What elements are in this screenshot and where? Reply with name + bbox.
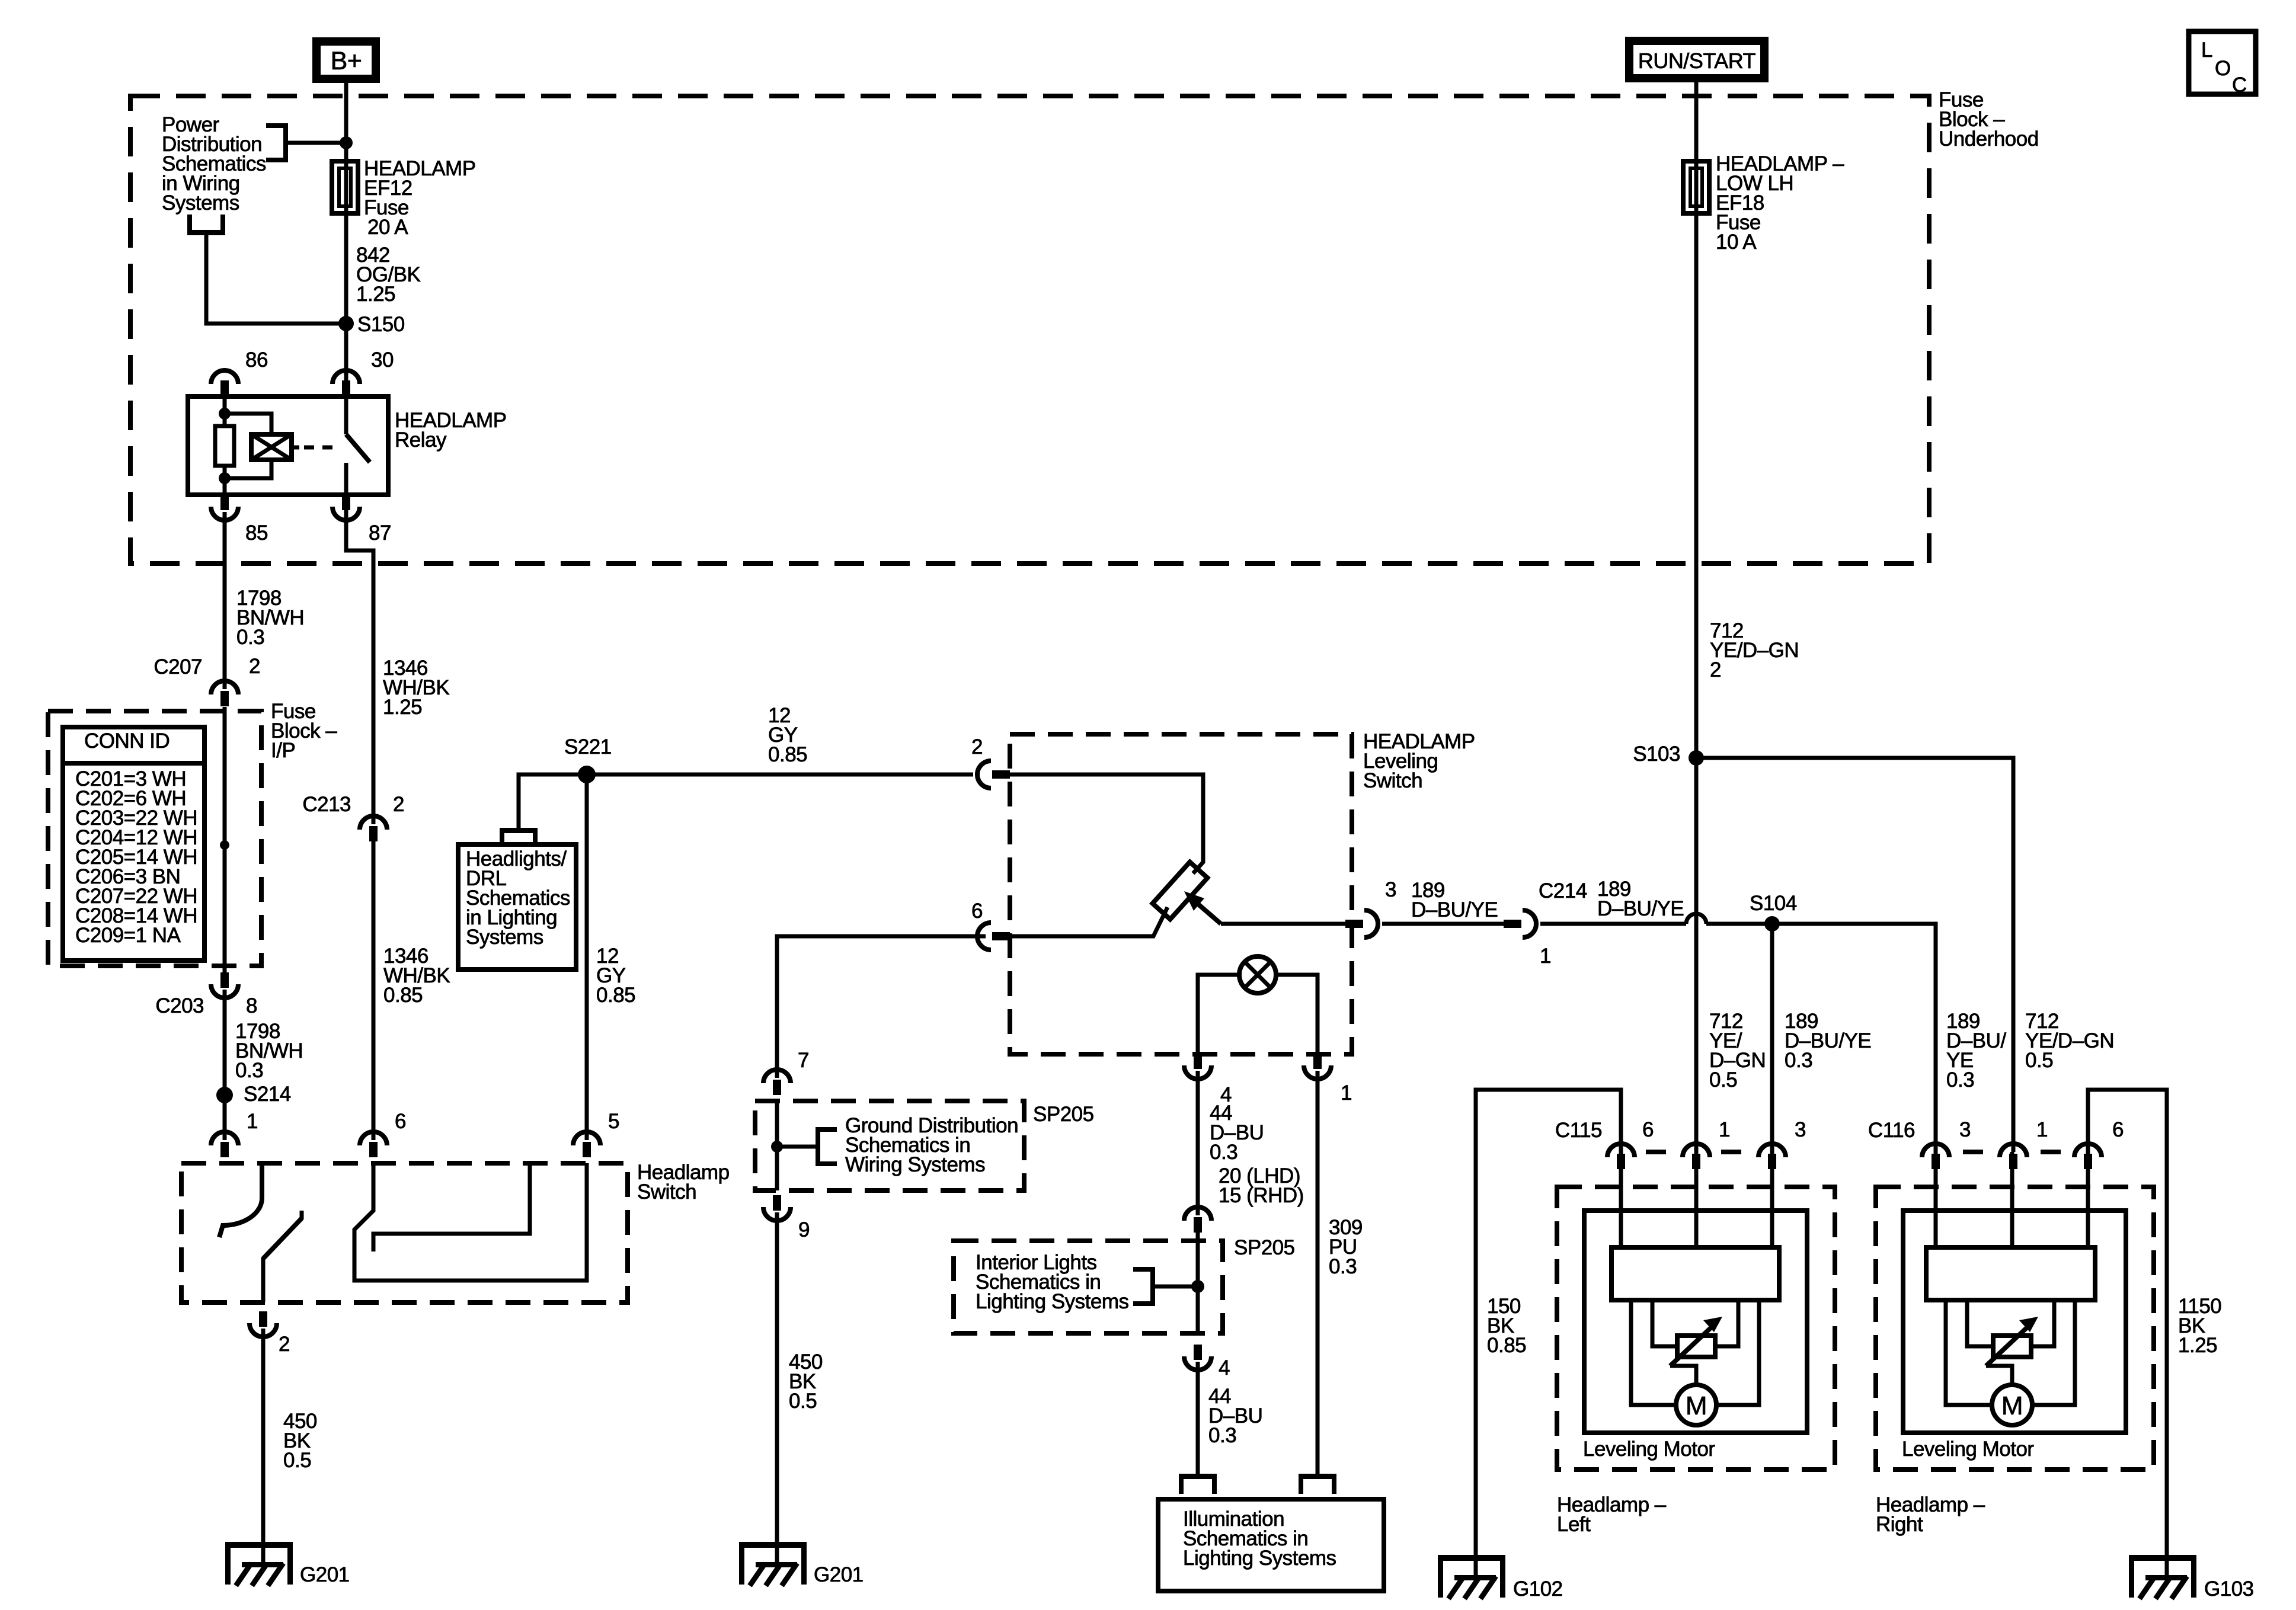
potentiometer arrow — [1670, 1323, 1716, 1366]
connector C213 pin 2 — [360, 816, 387, 830]
svg-text:YE/D–GN: YE/D–GN — [1710, 639, 1799, 662]
svg-text:0.3: 0.3 — [1329, 1255, 1357, 1278]
wire pin 1 down, 309 PU — [1316, 1071, 1320, 1474]
motor assembly terminal block — [1611, 1247, 1779, 1300]
svg-text:B+: B+ — [331, 47, 362, 75]
svg-text:20 A: 20 A — [367, 216, 408, 239]
svg-text:Systems: Systems — [466, 926, 543, 949]
svg-text:15 (RHD): 15 (RHD) — [1219, 1184, 1304, 1207]
wire pin 2 to ground G201, 450 BK — [261, 1329, 266, 1548]
HEADLAMP Relay box — [188, 396, 388, 495]
svg-text:1.25: 1.25 — [2178, 1334, 2217, 1357]
leveling feedback potentiometer — [1677, 1336, 1715, 1357]
wire S104 branch right to C116 pin 3 — [1772, 924, 1936, 1152]
svg-text:S221: S221 — [564, 735, 612, 758]
wire through Fuse Block I/P — [223, 707, 227, 975]
svg-text:Switch: Switch — [1363, 769, 1422, 792]
svg-text:Underhood: Underhood — [1939, 127, 2039, 151]
Fuse Block - I/P dashed box — [48, 711, 261, 966]
pin wires into motor assembly — [1619, 1152, 1623, 1247]
svg-text:S150: S150 — [357, 313, 405, 336]
wire pin 9 to ground G201 middle, 450 BK — [775, 1212, 779, 1548]
svg-text:86: 86 — [245, 348, 268, 372]
leveling potentiometer — [1153, 862, 1208, 920]
wire pin 4 down, 44 D-BU — [1196, 1071, 1200, 1215]
Fuse Block - Underhood dashed box — [130, 96, 1929, 564]
relay internal junction top — [219, 408, 231, 420]
wire S104 down to C115 pin 3 — [1770, 924, 1774, 1152]
pin wires into motor assembly — [1934, 1152, 1938, 1247]
CONN ID table box — [63, 727, 204, 961]
HEADLAMP Leveling Switch dashed box — [1010, 734, 1352, 1054]
svg-text:5: 5 — [608, 1110, 619, 1133]
Headlights/DRL Schematics box — [458, 844, 576, 969]
svg-text:C115: C115 — [1555, 1119, 1602, 1142]
off-page connector symbol to Power Distribution — [187, 230, 225, 235]
connector C115 pin 3 — [1758, 1144, 1786, 1157]
svg-text:G102: G102 — [1513, 1577, 1563, 1601]
svg-text:C: C — [2232, 73, 2247, 97]
wire C116 pin 6 loop to ground G103, 1150 BK — [2088, 1090, 2167, 1561]
svg-text:0.5: 0.5 — [2025, 1049, 2053, 1072]
terminal block to motor wires — [1631, 1300, 1676, 1405]
relay coil branch wires — [225, 414, 271, 434]
terminal block to potentiometer wires — [1967, 1300, 1994, 1346]
headlamp switch fixed contact — [219, 1163, 262, 1237]
svg-text:6: 6 — [2112, 1118, 2124, 1141]
headlamp dashed box — [1557, 1187, 1835, 1470]
relay switch blade — [346, 434, 370, 462]
SP205 dashed box Interior Lights — [954, 1241, 1223, 1333]
connector C115 body dashes — [1646, 1150, 1666, 1154]
relay switch lower wire to pin 87 — [344, 463, 348, 512]
svg-text:CONN ID: CONN ID — [84, 729, 170, 753]
wire leveling switch pin 6 to pin 7, 450 BK — [777, 936, 986, 1078]
fuse EF12 HEADLAMP 20A — [332, 161, 358, 213]
svg-text:85: 85 — [245, 521, 268, 545]
svg-text:0.3: 0.3 — [1785, 1049, 1812, 1072]
ground G201 left — [225, 1542, 293, 1548]
B+ power node box — [316, 41, 376, 79]
splice S221 — [578, 766, 596, 783]
svg-text:3: 3 — [1959, 1118, 1971, 1141]
svg-text:D–BU/YE: D–BU/YE — [1597, 897, 1684, 920]
wire through SP205 interior — [1196, 1228, 1200, 1333]
svg-text:0.5: 0.5 — [789, 1390, 817, 1413]
svg-text:SP205: SP205 — [1033, 1103, 1094, 1126]
wire S221 branch to Headlights/DRL reference — [519, 774, 587, 828]
wire C203 to S214, 1798 BN/WH — [223, 990, 227, 1140]
leveling motor M — [1992, 1385, 2032, 1425]
connector C116 pin 3 — [1922, 1144, 1949, 1157]
LOC legend box top right — [2189, 31, 2256, 94]
svg-text:2: 2 — [1710, 658, 1721, 681]
leveling motor solid box — [1903, 1211, 2126, 1433]
connector C116 body dashes — [1963, 1150, 1983, 1154]
svg-text:G103: G103 — [2204, 1577, 2254, 1601]
wire C214 to S104 with crossover hop — [1382, 922, 1504, 926]
off-page reference into Illumination box left — [1179, 1474, 1217, 1479]
svg-text:C214: C214 — [1539, 879, 1587, 902]
svg-text:I/P: I/P — [271, 739, 295, 762]
svg-text:C213: C213 — [302, 793, 351, 816]
wire B+ to fuse EF12 — [344, 79, 348, 379]
svg-text:0.85: 0.85 — [383, 984, 423, 1007]
off-page reference into Illumination box right — [1299, 1474, 1336, 1479]
svg-text:M: M — [2001, 1391, 2023, 1420]
wire bracket to node on B+ feed — [286, 141, 346, 145]
headlamp switch pin 6 connector — [360, 1132, 387, 1145]
bracket to Interior Lights reference — [1150, 1267, 1155, 1306]
connector C207 pin 2 — [211, 681, 238, 694]
leveling switch pin 4 connector — [1184, 1065, 1211, 1079]
connector C203 pin 8 — [211, 984, 238, 998]
terminal block to potentiometer wires — [1652, 1300, 1678, 1346]
svg-text:0.3: 0.3 — [235, 1059, 263, 1082]
motor assembly terminal block — [1926, 1247, 2095, 1300]
svg-text:9: 9 — [798, 1218, 810, 1241]
connector pin 4 below SP205 — [1184, 1356, 1211, 1370]
svg-text:6: 6 — [395, 1110, 406, 1133]
wire RUN/START to fuse EF18 — [1694, 78, 1699, 758]
svg-text:4: 4 — [1219, 1356, 1230, 1379]
svg-text:1: 1 — [2036, 1118, 2048, 1141]
svg-text:C203: C203 — [155, 994, 204, 1017]
svg-text:1: 1 — [1540, 945, 1551, 968]
svg-text:Left: Left — [1557, 1513, 1591, 1536]
bracket to Ground Distribution reference — [816, 1127, 820, 1166]
wire pin 85 to C207, 1798 BN/WH — [223, 512, 227, 689]
leveling switch pin 1 connector — [1304, 1065, 1331, 1079]
svg-text:0.3: 0.3 — [236, 626, 264, 649]
ground G102 — [1438, 1555, 1505, 1561]
connector C116 pin 1 — [2000, 1144, 2027, 1157]
wire to Illumination reference, 44 D-BU — [1196, 1362, 1200, 1474]
svg-text:7: 7 — [798, 1049, 809, 1072]
leveling switch internal wire pin 2 to potentiometer — [1010, 774, 1203, 873]
headlamp switch pin 2 connector — [250, 1323, 277, 1337]
wire S103 down to C115 pin 1 — [1694, 758, 1699, 1152]
headlamp switch internal upper path — [373, 1163, 530, 1251]
svg-text:87: 87 — [369, 521, 391, 545]
svg-text:2: 2 — [971, 735, 983, 758]
svg-text:2: 2 — [393, 793, 404, 816]
headlamp dashed box — [1876, 1187, 2154, 1470]
svg-text:RUN/START: RUN/START — [1638, 49, 1756, 73]
relay pin 30 wire into switch — [344, 379, 348, 434]
leveling potentiometer wiper arrow — [1195, 901, 1221, 924]
svg-text:6: 6 — [1642, 1118, 1654, 1141]
splice S103 — [1689, 750, 1704, 766]
wire C213 to headlamp switch pin 6 — [372, 837, 376, 1140]
leveling switch pin 2 connector — [977, 761, 991, 788]
svg-text:0.85: 0.85 — [768, 743, 807, 766]
relay solenoid coil symbol — [251, 434, 292, 460]
svg-text:Systems: Systems — [162, 191, 239, 215]
svg-text:Relay: Relay — [395, 428, 447, 452]
connector pin 7 into SP205 — [763, 1070, 791, 1083]
Headlamp Switch dashed box — [181, 1163, 628, 1302]
junction SP205 interior — [1191, 1280, 1204, 1293]
svg-text:2: 2 — [249, 655, 260, 678]
ground G201 middle — [739, 1542, 807, 1548]
relay pin 85 connector — [211, 507, 238, 520]
svg-text:C207: C207 — [154, 655, 202, 678]
headlamp switch wire to pin 2 — [261, 1257, 266, 1302]
svg-text:M: M — [1686, 1391, 1707, 1420]
wire from Power Distribution reference to S150 — [206, 234, 346, 324]
splice S214 — [216, 1087, 233, 1103]
connector C115 pin 1 — [1683, 1144, 1710, 1157]
relay pin 86 connector — [211, 370, 238, 384]
leveling switch indicator lamp — [1239, 956, 1276, 993]
ground G103 — [2129, 1555, 2196, 1561]
leveling switch pin 3 connector — [1364, 910, 1378, 937]
svg-text:2: 2 — [279, 1333, 290, 1356]
svg-text:0.5: 0.5 — [283, 1449, 311, 1472]
junction on B+ feed — [340, 136, 353, 149]
headlamp switch pin 5 connector — [573, 1132, 600, 1145]
splice S150 — [338, 316, 354, 331]
relay internal junction bottom — [219, 472, 231, 484]
headlamp switch blade — [300, 1211, 304, 1219]
svg-text:1: 1 — [1341, 1081, 1352, 1105]
wire C115 pin 6 loop to ground G102, 150 BK — [1476, 1090, 1621, 1561]
relay pin 30 connector — [332, 370, 360, 384]
connector C115 pin 6 — [1607, 1144, 1635, 1157]
headlamp switch internal path pin 6 to pin 5 — [354, 1163, 587, 1281]
svg-text:SP205: SP205 — [1234, 1236, 1295, 1259]
svg-text:Lighting Systems: Lighting Systems — [976, 1290, 1129, 1313]
svg-text:S104: S104 — [1750, 892, 1797, 915]
svg-text:3: 3 — [1795, 1118, 1806, 1141]
svg-text:0.3: 0.3 — [1208, 1424, 1236, 1447]
connector C116 pin 6 — [2074, 1144, 2102, 1157]
svg-text:S214: S214 — [244, 1083, 291, 1106]
terminal block to motor wires — [1946, 1300, 1992, 1405]
svg-text:6: 6 — [971, 900, 983, 923]
leveling switch wiper wire to pin 3 — [1221, 922, 1352, 926]
relay solenoid actuating stub and dashed link — [292, 446, 299, 450]
svg-text:Leveling Motor: Leveling Motor — [1583, 1438, 1715, 1461]
SP205 dashed box Ground Distribution — [755, 1101, 1024, 1190]
lamp wires to pins 4 and 1 — [1198, 975, 1239, 1054]
svg-text:Wiring Systems: Wiring Systems — [845, 1153, 985, 1176]
svg-text:1.25: 1.25 — [383, 696, 422, 719]
relay coil feed wire pin 86 to 85 — [223, 394, 227, 426]
fuse EF18 HEADLAMP-LOW LH 10A — [1683, 161, 1709, 213]
svg-text:8: 8 — [246, 994, 257, 1017]
connector pin 9 below SP205 — [763, 1207, 791, 1221]
leveling switch internal wire pin 6 to potentiometer — [1010, 907, 1168, 936]
svg-text:O: O — [2215, 57, 2231, 80]
svg-text:L: L — [2201, 39, 2212, 62]
svg-text:3: 3 — [1385, 878, 1396, 901]
wire S221 to leveling switch pin 2 — [587, 773, 973, 777]
off-page reference into Headlights/DRL box — [500, 828, 538, 833]
leveling feedback potentiometer — [1993, 1336, 2031, 1357]
junction in SP205 — [771, 1141, 783, 1153]
svg-text:10 A: 10 A — [1716, 231, 1757, 254]
svg-text:C116: C116 — [1868, 1119, 1915, 1142]
bracket to Power Distribution reference — [283, 123, 288, 162]
RUN/START power node box — [1629, 41, 1764, 78]
leveling motor solid box — [1584, 1211, 1807, 1433]
leveling switch pin 6 connector — [977, 923, 991, 950]
wire pin 87 to C213, 1346 WH/BK — [346, 512, 373, 824]
splice S104 — [1764, 916, 1780, 932]
leveling motor M — [1676, 1385, 1716, 1425]
svg-text:Lighting Systems: Lighting Systems — [1183, 1547, 1336, 1570]
wire into SP205 splice — [775, 1102, 779, 1190]
wire S103 branch right to C116 pin 1 — [1696, 758, 2013, 1152]
svg-text:0.85: 0.85 — [596, 984, 635, 1007]
svg-text:S103: S103 — [1633, 742, 1680, 766]
headlamp switch pin 1 connector — [211, 1132, 238, 1145]
svg-text:30: 30 — [371, 348, 394, 372]
svg-text:1: 1 — [1719, 1118, 1730, 1141]
svg-text:0.3: 0.3 — [1210, 1141, 1237, 1164]
potentiometer arrow — [1986, 1323, 2032, 1366]
potentiometer wiper to motor — [1670, 1366, 1696, 1385]
svg-text:C209=1 NA: C209=1 NA — [75, 924, 181, 947]
svg-text:D–BU/YE: D–BU/YE — [1411, 898, 1498, 921]
Illumination Schematics box — [1158, 1499, 1384, 1591]
svg-text:G201: G201 — [300, 1563, 350, 1586]
svg-text:0.3: 0.3 — [1946, 1068, 1974, 1092]
svg-text:Switch: Switch — [637, 1180, 696, 1204]
svg-text:Right: Right — [1876, 1513, 1923, 1536]
connector into SP205 interior lights splice — [1184, 1207, 1211, 1221]
svg-text:0.5: 0.5 — [1709, 1068, 1737, 1092]
svg-text:G201: G201 — [814, 1563, 864, 1586]
svg-text:Leveling Motor: Leveling Motor — [1902, 1438, 2034, 1461]
junction inside fuse block — [220, 840, 229, 850]
potentiometer wiper to motor — [1986, 1366, 2012, 1385]
relay pin 87 connector — [332, 507, 360, 520]
svg-text:1: 1 — [247, 1110, 258, 1133]
relay coil resistor — [215, 426, 234, 466]
connector C214 pin 1 — [1523, 910, 1536, 937]
svg-text:1.25: 1.25 — [356, 283, 395, 306]
wire S221 down to headlamp switch pin 5, 12 GY — [585, 774, 589, 1140]
svg-text:0.85: 0.85 — [1487, 1334, 1526, 1357]
